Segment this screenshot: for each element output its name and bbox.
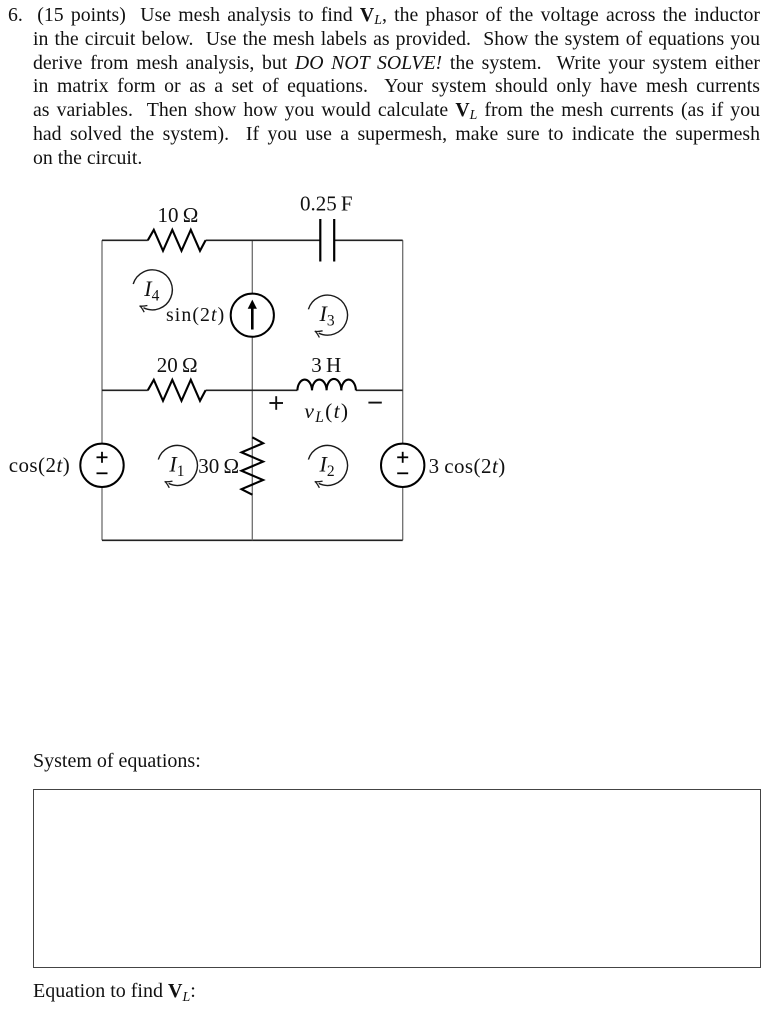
svg-text:vL(t): vL(t) bbox=[304, 399, 349, 426]
svg-text:sin(2t): sin(2t) bbox=[166, 304, 225, 326]
svg-text:I4: I4 bbox=[143, 276, 159, 305]
svg-text:I2: I2 bbox=[319, 451, 335, 480]
svg-text:3 H: 3 H bbox=[311, 353, 341, 377]
svg-text:20 Ω: 20 Ω bbox=[157, 353, 198, 377]
svg-text:cos(2t): cos(2t) bbox=[9, 453, 71, 477]
svg-text:30 Ω: 30 Ω bbox=[198, 454, 239, 478]
svg-text:I1: I1 bbox=[168, 451, 184, 480]
svg-text:0.25 F: 0.25 F bbox=[300, 192, 353, 216]
svg-text:I3: I3 bbox=[319, 301, 335, 330]
svg-text:3 cos(2t): 3 cos(2t) bbox=[429, 454, 506, 478]
svg-text:10 Ω: 10 Ω bbox=[157, 203, 198, 227]
